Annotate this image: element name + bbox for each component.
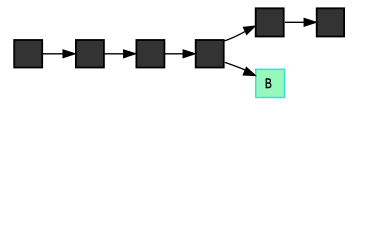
svg-text:B: B bbox=[265, 76, 272, 91]
